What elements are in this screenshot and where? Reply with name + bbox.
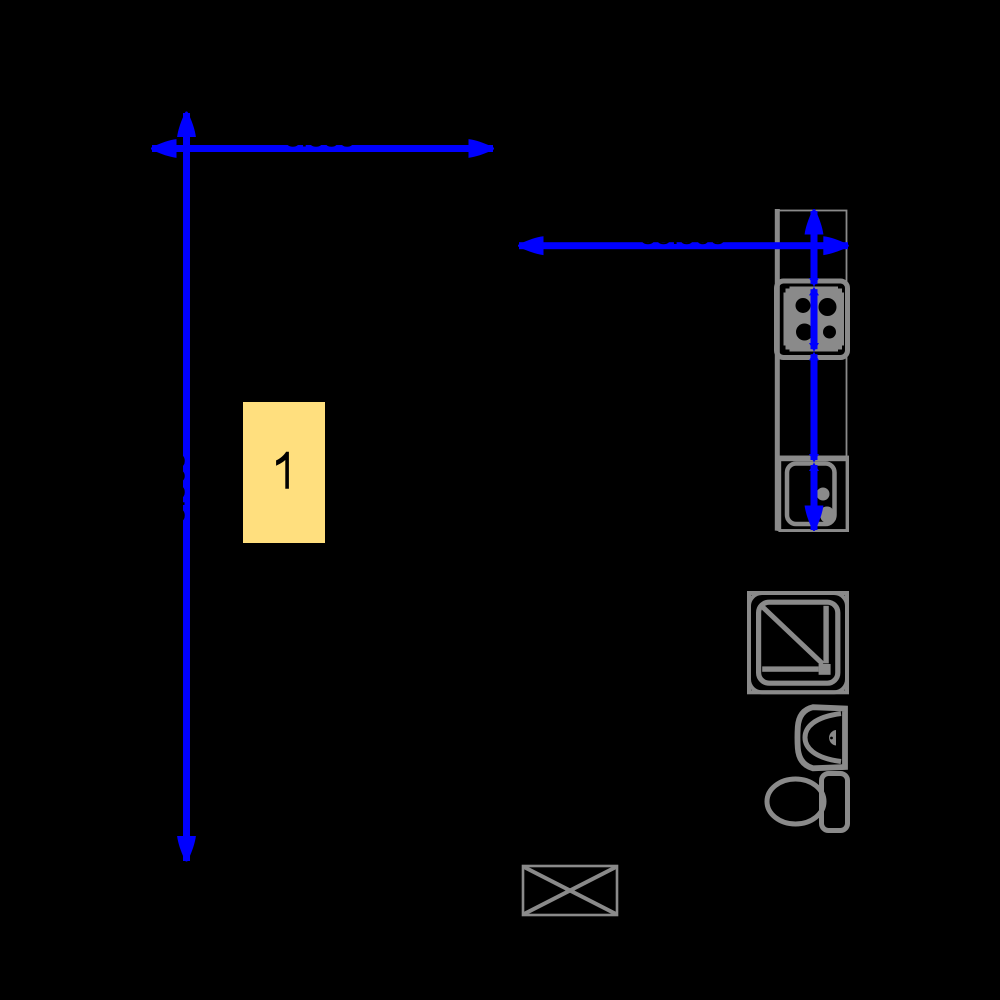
washbasin drain dot (830, 737, 833, 740)
left vertical dimension line (183, 113, 190, 861)
second horizontal arrowhead left (518, 236, 544, 255)
stove burner bottom-left (796, 324, 813, 341)
kitchen vertical dimension line segment 1 (811, 211, 818, 284)
shower riser bar (823, 606, 828, 664)
kitchen vertical dimension line segment 2 (811, 289, 818, 349)
left vertical dimension arrowhead top (177, 112, 196, 138)
sink outer frame (780, 457, 848, 531)
svg-text:38.565: 38.565 (640, 219, 726, 250)
svg-text:5.565: 5.565 (160, 453, 191, 523)
second horizontal dimension line (519, 242, 848, 249)
stove field corner notches (784, 287, 845, 352)
kitchen vertical arrowhead bottom (805, 506, 824, 532)
kitchen dimension pinch at stove top (809, 278, 819, 295)
kitchen vertical dimension line segment 4 (811, 465, 818, 530)
svg-text:3.855: 3.855 (285, 122, 355, 153)
shower outer square (749, 593, 847, 692)
door cross diagonal 1 (524, 867, 616, 914)
washbasin outer (798, 707, 846, 768)
kitchen vertical arrowhead top (805, 209, 824, 235)
stove inner field (784, 287, 845, 352)
shower tray (759, 602, 838, 683)
shower diagonal (761, 605, 823, 664)
washbasin bowl (805, 714, 841, 762)
shower bottom bar (762, 666, 818, 671)
top horizontal arrowhead right (469, 139, 495, 158)
kitchen dimension pinch at stove bottom (809, 343, 819, 360)
sink drain corner blob (821, 507, 834, 523)
toilet bowl (767, 779, 824, 824)
room number 1 (276, 452, 289, 489)
toilet cistern (822, 774, 848, 831)
stove burner top-left (796, 298, 811, 313)
kitchen counter left wall bar (775, 209, 780, 531)
shower rounded square (749, 593, 847, 692)
left vertical dimension arrowhead bottom (177, 836, 196, 862)
kitchen dimension pinch at sink top (809, 454, 819, 471)
stove outer frame (777, 281, 848, 358)
sink drain circle (817, 488, 830, 501)
stove burner bottom-right (823, 326, 836, 339)
stove burner top-right (819, 298, 837, 316)
sink basin (787, 464, 835, 525)
second horizontal arrowhead right (823, 236, 849, 255)
door crossed box (523, 866, 617, 915)
door cross diagonal 2 (524, 867, 616, 914)
sink top divider band (776, 456, 848, 462)
top horizontal dimension line (152, 145, 493, 152)
washbasin drain semicircle (829, 730, 836, 746)
kitchen vertical dimension line segment 3 (811, 354, 818, 460)
shower drain square (819, 664, 831, 675)
room label box 1 (243, 402, 325, 543)
top horizontal arrowhead left (151, 139, 177, 158)
kitchen counter outline (778, 211, 847, 531)
